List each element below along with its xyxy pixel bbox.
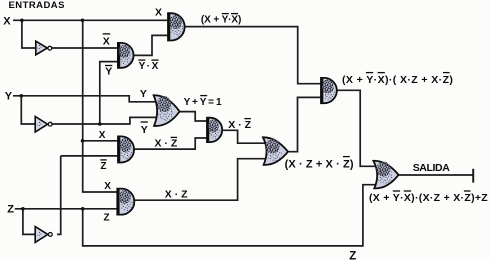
svg-text:X: X: [155, 7, 162, 19]
node Y inverter tap: [20, 94, 24, 98]
svg-text:X: X: [103, 36, 110, 48]
OR gate O1 (Y + Y'): [154, 95, 180, 126]
wire SALIDA output: [397, 174, 473, 176]
wire X input to A3: [83, 140, 121, 142]
label NOT-X: [103, 34, 111, 48]
node Z inverter tap: [21, 207, 25, 211]
wire Z branch to O3: [83, 185, 376, 246]
svg-text:Z: Z: [7, 203, 14, 215]
svg-text:Y: Y: [139, 61, 146, 72]
wire O1 output to A4: [179, 112, 210, 121]
node Z branch junction: [81, 207, 85, 211]
wire A3 output to A4: [133, 138, 210, 149]
AND gate A1 (Y'.X'): [118, 43, 134, 68]
svg-text:Z: Z: [349, 250, 356, 260]
wire A1 output to A2: [131, 35, 169, 55]
node X inverter tap: [20, 19, 24, 23]
AND gate A3 (X.Z'): [118, 136, 134, 162]
svg-text:(X + Y·X)·(X·Z + X·Z)+Z: (X + Y·X)·(X·Z + X·Z)+Z: [369, 192, 488, 204]
svg-text:Z: Z: [104, 212, 110, 223]
inverter I2 (Y): [35, 116, 52, 132]
wire A5 output to O3: [336, 90, 377, 166]
wire NOT-Z line to A3: [61, 155, 120, 157]
AND gate A6 (X.Z): [117, 189, 134, 215]
AND gate A2 (X + Y'.X'): [168, 13, 185, 40]
wire O2 output to A5: [285, 97, 323, 151]
wire X bus vertical: [83, 20, 118, 192]
label final expression: [369, 191, 488, 204]
AND gate A4 (1 . X.Z'): [207, 118, 222, 142]
label (X + Y'.X'): [201, 14, 241, 26]
OR gate O2 (X.Z + X.Z'): [263, 137, 288, 165]
label X.Z' after A4: [228, 119, 251, 131]
wire Y input line: [13, 96, 160, 102]
wire Z inverter tap: [23, 209, 35, 235]
inverter I1 (X): [36, 41, 52, 55]
svg-text:X: X: [99, 130, 106, 141]
wire X input line: [13, 19, 169, 21]
label product expression: [342, 73, 453, 86]
svg-text:X: X: [152, 61, 159, 72]
svg-text:Y + Y = 1: Y + Y = 1: [184, 97, 222, 108]
svg-text:Y: Y: [141, 124, 148, 136]
label NOT-Y lower: [141, 122, 148, 136]
svg-text:Z: Z: [100, 161, 106, 172]
svg-text:(X + Y·X)·( X·Z + X·Z): (X + Y·X)·( X·Z + X·Z): [342, 74, 453, 86]
label (X.Z + X.Z'): [285, 157, 354, 171]
label X.Z' after A3: [155, 137, 178, 149]
label Y'.X': [138, 60, 158, 72]
svg-text:SALIDA: SALIDA: [413, 162, 451, 174]
svg-text:ENTRADAS: ENTRADAS: [9, 0, 65, 11]
wire NOT-X line to A1: [52, 47, 120, 49]
wire NOT-Y line to O1: [52, 117, 160, 124]
svg-text:(X · Z + X · Z): (X · Z + X · Z): [285, 158, 354, 170]
svg-text:Y: Y: [5, 90, 13, 102]
node NOT-Y junction: [98, 122, 102, 126]
OR gate O3 (final sum, SALIDA): [373, 161, 398, 189]
wire NOT-Y riser to A1: [100, 62, 120, 124]
svg-text:·: ·: [147, 61, 150, 72]
wire NOT-Z riser: [57, 156, 61, 235]
label NOT-Z: [100, 160, 106, 172]
wire A2 output to A5: [184, 27, 323, 84]
wire Y inverter tap: [21, 96, 35, 124]
wire A6 output to O2: [133, 159, 267, 201]
svg-text:X: X: [104, 181, 111, 192]
svg-text:(X + Y·X): (X + Y·X): [201, 14, 241, 25]
inverter I3 (Z): [35, 227, 52, 243]
node X bus tap: [81, 19, 85, 23]
svg-text:X · Z: X · Z: [155, 138, 178, 150]
wire Z input line: [15, 208, 118, 210]
svg-text:X: X: [3, 15, 11, 27]
node X to A3 junction: [81, 139, 85, 143]
wire X inverter tap: [22, 20, 36, 48]
svg-text:Y: Y: [140, 88, 147, 100]
svg-text:X · Z: X · Z: [165, 188, 188, 200]
label NOT-Y upper: [105, 66, 112, 78]
terminal tick: [472, 169, 474, 183]
wire A4 output to O2: [220, 130, 266, 143]
label Y + Y' = 1: [184, 96, 222, 109]
svg-text:X · Z: X · Z: [228, 119, 251, 131]
svg-text:Y: Y: [105, 66, 112, 78]
AND gate A5 (product of sums): [321, 78, 337, 103]
